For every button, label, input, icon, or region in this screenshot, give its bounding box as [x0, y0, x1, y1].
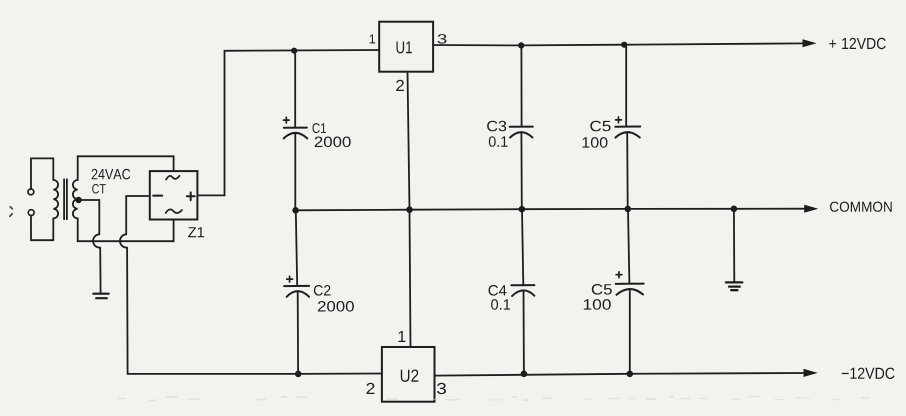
label C2 value 2000 — [318, 301, 354, 312]
capacitor C3 — [510, 45, 533, 209]
scan artifact band bottom — [118, 396, 870, 402]
wire secondary top lead to bridge — [78, 156, 174, 180]
scan artifact marks left edge — [10, 207, 12, 216]
junction dot common left — [292, 207, 299, 214]
wire U1 pin2 down through common to U2 pin1 — [408, 72, 411, 347]
common rail wire — [295, 209, 805, 211]
wire common ground stem — [733, 209, 735, 283]
regulator U1 box — [379, 22, 433, 72]
plug terminals loop — [28, 158, 53, 240]
label U1 — [397, 42, 412, 54]
ground (center tap) — [93, 294, 108, 299]
transformer T1 secondary winding — [73, 180, 78, 218]
label C1 value 2000 — [315, 137, 351, 148]
label C4 — [489, 285, 507, 296]
wire top rail left of U1 — [225, 49, 380, 52]
label U1 pin 1 — [370, 35, 376, 44]
bridge rectifier Z1 — [150, 171, 198, 219]
label U2 pin 1 — [399, 331, 406, 342]
capacitor C2 — [284, 210, 309, 374]
wire bridge minus to bottom rail with hop — [120, 196, 150, 374]
ground (common) — [726, 282, 742, 290]
label C4 value 0.1 — [491, 299, 510, 310]
label U2 — [401, 370, 419, 382]
capacitor C5 bottom — [616, 209, 644, 374]
wire center tap to ground with hop — [79, 200, 101, 294]
label U1 pin 2 — [396, 80, 404, 91]
label U2 pin 3 — [437, 383, 446, 394]
transformer T1 primary winding — [53, 158, 58, 240]
junction dot common C5 — [625, 206, 632, 213]
junction dot C5 bottom — [627, 371, 634, 378]
label C5 bottom value 100 — [584, 299, 611, 310]
label U1 pin 3 — [438, 34, 447, 44]
label -12VDC — [842, 368, 895, 379]
arrowhead COMMON — [805, 205, 817, 212]
junction dot common ground — [731, 206, 738, 213]
label COMMON — [830, 202, 892, 212]
junction dot common C3 C4 — [519, 206, 526, 213]
junction dot C1 top — [291, 48, 297, 54]
label C5 top value 100 — [583, 137, 608, 148]
arrowhead +12VDC — [803, 40, 815, 47]
junction dot common regulator — [406, 206, 413, 213]
label C2 — [314, 285, 331, 296]
junction dot C3 top — [518, 42, 524, 48]
junction dot C2 bottom — [295, 371, 302, 378]
capacitor C5 top — [615, 45, 640, 209]
transformer core — [64, 179, 67, 219]
label C3 — [487, 121, 506, 132]
label C5 bottom — [592, 284, 612, 295]
wire top rail right of U1 to arrow — [433, 43, 803, 45]
label C3 value 0.1 — [489, 136, 508, 147]
wire secondary bottom lead to bridge — [78, 218, 174, 241]
wire bottom rail left of U2 — [128, 373, 382, 375]
label C5 top — [590, 121, 610, 132]
label CT — [92, 184, 106, 194]
wire bridge plus up to top rail — [197, 51, 224, 196]
capacitor C4 — [511, 209, 534, 374]
label +12VDC — [829, 38, 886, 49]
junction dot C4 bottom — [521, 371, 528, 378]
capacitor C1 — [283, 51, 307, 211]
label Z1 — [188, 227, 204, 237]
regulator U2 box — [382, 347, 435, 402]
arrowhead -12VDC — [804, 370, 816, 377]
label U2 pin 2 — [367, 383, 375, 394]
wire bottom rail right of U2 to arrow — [435, 373, 805, 376]
label 24VAC — [92, 169, 131, 180]
junction dot C5 top — [621, 42, 627, 48]
label C1 — [313, 123, 327, 133]
center tap node — [75, 197, 81, 203]
